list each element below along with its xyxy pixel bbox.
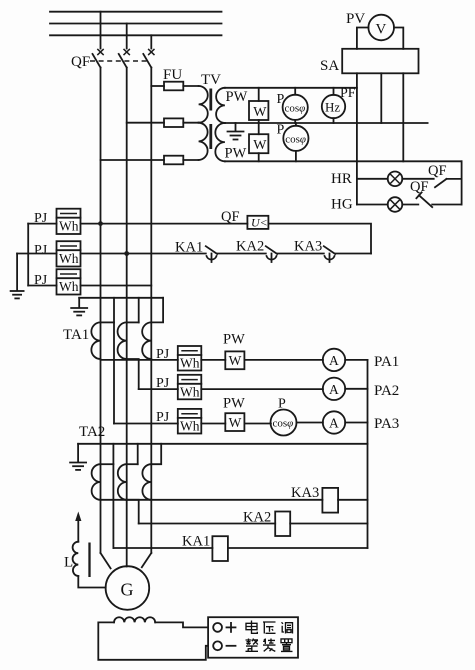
contact KA3 bbox=[324, 246, 335, 262]
wire row3 cosphi to A bbox=[297, 422, 323, 424]
svg-text:Wh: Wh bbox=[180, 384, 200, 399]
svg-text:QF: QF bbox=[221, 209, 240, 225]
voltmeter PV bbox=[368, 15, 394, 41]
wire phase C drop from bus L3 bbox=[150, 35, 152, 48]
wire row2 Wh to A bbox=[201, 388, 323, 390]
svg-text:A: A bbox=[329, 382, 339, 397]
svg-text:Wh: Wh bbox=[180, 356, 200, 371]
svg-text:U<: U< bbox=[251, 215, 268, 229]
wire meter right rail bbox=[367, 360, 369, 548]
svg-text:A: A bbox=[329, 353, 339, 368]
voltage regulator box bbox=[208, 617, 298, 658]
svg-text:W: W bbox=[229, 415, 242, 430]
svg-text:TA2: TA2 bbox=[79, 424, 105, 440]
wire phase A drop from bus L1 bbox=[100, 12, 102, 49]
wire FU3 to TV bbox=[183, 159, 198, 161]
current transformer TA2 phase B bbox=[118, 464, 127, 500]
breaker QF pole B bbox=[119, 49, 130, 68]
svg-text:A: A bbox=[329, 416, 339, 431]
svg-text:Wh: Wh bbox=[59, 251, 79, 266]
wire TA1 lead B top bbox=[138, 298, 140, 323]
wire row1 right bbox=[345, 359, 367, 361]
svg-text:HR: HR bbox=[331, 171, 352, 187]
svg-text:PJ: PJ bbox=[156, 347, 170, 362]
wire TA2 jog B bbox=[127, 463, 138, 465]
svg-text:W: W bbox=[253, 138, 267, 153]
svg-text:QF: QF bbox=[71, 54, 90, 70]
terminal plus bbox=[213, 623, 222, 632]
svg-text:PW: PW bbox=[226, 89, 248, 105]
bus L3 bbox=[50, 34, 222, 36]
power-factor meter cosphi row3 bbox=[271, 410, 297, 436]
wire row3 right bbox=[345, 422, 367, 424]
current transformer TA1 phase B bbox=[118, 322, 127, 359]
wire HR branch left bbox=[357, 178, 388, 180]
svg-text:KA2: KA2 bbox=[236, 239, 264, 255]
wire KA line seg3 bbox=[277, 253, 324, 255]
svg-text:HG: HG bbox=[331, 197, 353, 213]
ground TA2 bbox=[70, 444, 86, 470]
wire phase A slant to G bbox=[101, 553, 111, 568]
wire TV secondary mid bbox=[225, 122, 428, 124]
wire HR branch right bbox=[447, 178, 462, 180]
wire KA2 row bbox=[139, 523, 276, 525]
wire TA2 jog A bbox=[101, 463, 114, 465]
wire PJ3 to phase C bbox=[81, 285, 152, 287]
wire TA1 lead B bottom bbox=[127, 359, 139, 389]
svg-text:Wh: Wh bbox=[59, 219, 79, 234]
wire row1 left bbox=[101, 359, 178, 361]
wire lamp right rail bbox=[461, 161, 463, 204]
text zheng zhuang zhi bbox=[246, 639, 293, 652]
wire TA1 lead C top bbox=[151, 298, 163, 323]
svg-text:cosφ: cosφ bbox=[273, 418, 294, 430]
breaker QF pole C bbox=[143, 49, 154, 68]
contact KA2 bbox=[266, 246, 277, 262]
transformer TV secondary winding PW lower bbox=[215, 123, 225, 161]
wire row3 vertical from lead A bbox=[114, 423, 178, 425]
bus L1 bbox=[50, 11, 222, 13]
wattmeter W row3 bbox=[225, 413, 244, 431]
wire phase B main bbox=[126, 68, 128, 567]
transformer TV core upper bbox=[209, 89, 212, 111]
wattmeter W1 bbox=[249, 88, 268, 123]
fuse FU2 bbox=[164, 118, 183, 127]
wire HG branch left bbox=[357, 204, 388, 206]
wire KA1 to rail bbox=[228, 547, 368, 549]
wire L to generator bbox=[78, 576, 105, 588]
wire TA1 secondary common bbox=[79, 297, 163, 299]
transformer TV secondary winding PW upper bbox=[216, 88, 225, 123]
wattmeter W2 bbox=[249, 123, 268, 161]
current transformer TA1 phase C bbox=[142, 322, 151, 359]
wattmeter W row1 bbox=[225, 351, 244, 369]
wire HG branch right bbox=[432, 204, 461, 206]
selector switch SA bbox=[342, 49, 418, 74]
power-factor meter P cosphi lower bbox=[277, 123, 309, 162]
text dian ya tiao bbox=[246, 621, 293, 634]
svg-text:PJ: PJ bbox=[156, 410, 170, 425]
svg-text:Hz: Hz bbox=[325, 100, 340, 115]
wire TV secondary top bbox=[225, 87, 357, 89]
relay coil KA3 bbox=[322, 488, 338, 513]
wire KA1 row bbox=[113, 547, 212, 549]
wire KA line seg4 bbox=[335, 253, 371, 255]
wire row2 elbow bbox=[139, 388, 178, 390]
svg-text:PJ: PJ bbox=[34, 243, 48, 258]
svg-text:KA1: KA1 bbox=[182, 534, 210, 550]
svg-text:cosφ: cosφ bbox=[285, 103, 306, 115]
svg-text:PW: PW bbox=[223, 332, 245, 348]
wire TV secondary bottom bbox=[225, 160, 462, 162]
transformer TV core lower bbox=[209, 124, 212, 149]
wire PJ1 left bbox=[28, 223, 56, 225]
relay coil KA1 bbox=[212, 536, 228, 561]
wire TA2 secondary common bbox=[78, 443, 367, 445]
svg-text:G: G bbox=[121, 580, 134, 600]
wire SA left drop bbox=[356, 73, 358, 204]
ammeter PA2 bbox=[323, 378, 345, 400]
undervoltage release U-box bbox=[247, 215, 268, 229]
svg-text:TA1: TA1 bbox=[63, 327, 89, 343]
svg-text:PA3: PA3 bbox=[374, 416, 399, 432]
svg-text:Wh: Wh bbox=[180, 418, 200, 433]
wire SA right drop bbox=[402, 73, 404, 161]
ammeter PA3 bbox=[323, 411, 345, 433]
wire KA3 row bbox=[101, 499, 323, 501]
wire phase B to FU2 bbox=[127, 122, 164, 124]
wire PJ3 left bbox=[28, 285, 56, 287]
wire field left loop bbox=[98, 622, 208, 659]
svg-text:KA2: KA2 bbox=[243, 510, 271, 526]
svg-text:KA1: KA1 bbox=[175, 240, 203, 256]
fuse FU1 bbox=[164, 82, 183, 91]
wire PV left to SA bbox=[357, 28, 369, 49]
wire KA line seg2 bbox=[217, 253, 266, 255]
wire TA2 lead C top bbox=[151, 444, 161, 464]
wire PJ2 ground vertical bbox=[16, 254, 18, 291]
wire TA1 lead A bbox=[113, 298, 115, 424]
contact QF NC for HG bbox=[416, 192, 432, 207]
energy meter PJ3 Wh bbox=[57, 269, 81, 294]
breaker QF pole A bbox=[93, 49, 104, 68]
svg-text:V: V bbox=[376, 22, 387, 38]
wire HR branch mid bbox=[402, 178, 433, 180]
transformer TV primary winding upper bbox=[199, 86, 208, 123]
inductor L bbox=[73, 542, 79, 576]
energy meter Wh row2 bbox=[178, 375, 202, 400]
ground PJ meters bbox=[11, 291, 24, 298]
svg-text:W: W bbox=[253, 105, 267, 120]
wire HG branch mid bbox=[402, 204, 418, 206]
svg-text:QF: QF bbox=[428, 163, 447, 179]
wire Wh1 to U-box bbox=[81, 223, 248, 225]
wire phase C to FU1 bbox=[151, 85, 164, 87]
lamp HR bbox=[388, 172, 403, 187]
wire phase A to FU3 bbox=[101, 159, 165, 161]
bus L2 bbox=[50, 23, 222, 25]
current transformer TA2 phase C bbox=[142, 464, 151, 500]
wire KA line seg1 bbox=[81, 253, 206, 255]
breaker linkage dashed bbox=[90, 60, 150, 62]
wire FU2 to TV bbox=[183, 122, 198, 124]
node phase B tap bbox=[124, 251, 129, 256]
wire row1 Wh to W bbox=[201, 359, 225, 361]
svg-text:L: L bbox=[64, 555, 73, 571]
wire PV right to SA bbox=[394, 28, 403, 49]
wire phase B drop from bus L2 bbox=[126, 24, 128, 49]
energy meter PJ2 Wh bbox=[57, 241, 81, 266]
arrow excitation bbox=[75, 512, 81, 542]
transformer TV primary winding lower bbox=[199, 123, 208, 160]
energy meter Wh row1 bbox=[178, 346, 202, 371]
wire TA2 lead A bbox=[112, 444, 114, 548]
power-factor meter P cosphi upper bbox=[277, 88, 308, 123]
ground TA1 bbox=[71, 298, 87, 316]
wire PJ1-PJ3 link vertical bbox=[27, 224, 29, 286]
ammeter PA1 bbox=[323, 349, 345, 371]
svg-text:PW: PW bbox=[225, 146, 247, 162]
inductor L core bar bbox=[88, 543, 90, 578]
svg-text:TV: TV bbox=[201, 72, 221, 88]
wire phase A main bbox=[100, 68, 102, 554]
current transformer TA2 phase A bbox=[92, 464, 101, 500]
wire field right to regulator bbox=[155, 622, 208, 627]
svg-text:FU: FU bbox=[163, 67, 182, 83]
frequency meter PF Hz bbox=[322, 86, 356, 123]
wire row1 W to A bbox=[244, 359, 323, 361]
wire SA mid drop bbox=[380, 73, 382, 123]
field winding bbox=[114, 617, 155, 622]
fuse FU3 bbox=[164, 156, 183, 165]
svg-text:SA: SA bbox=[320, 58, 339, 74]
wire U-box to right bbox=[268, 224, 371, 254]
wire TA2 lead B top bbox=[137, 444, 139, 464]
wire row3 Wh to W bbox=[201, 423, 225, 425]
svg-text:KA3: KA3 bbox=[294, 239, 322, 255]
ground TV mid bbox=[228, 123, 244, 140]
energy meter PJ1 Wh bbox=[57, 209, 81, 234]
svg-text:QF: QF bbox=[410, 179, 429, 195]
wire PJ2 left bbox=[17, 253, 56, 255]
svg-text:PA1: PA1 bbox=[374, 354, 399, 370]
svg-text:KA3: KA3 bbox=[291, 485, 319, 501]
generator G bbox=[106, 566, 150, 610]
svg-text:PV: PV bbox=[346, 11, 365, 27]
wire TA1 jog B bbox=[127, 321, 139, 323]
wire FU1 to TV bbox=[183, 85, 198, 87]
minus sign bbox=[227, 645, 236, 647]
lamp HG bbox=[388, 197, 403, 212]
wire phase C slant to G bbox=[142, 553, 152, 567]
plus sign bbox=[227, 623, 236, 632]
wire row2 right bbox=[345, 388, 367, 390]
svg-text:Wh: Wh bbox=[59, 279, 79, 294]
wire KA3 to rail bbox=[338, 499, 367, 501]
energy meter Wh row3 bbox=[178, 409, 202, 434]
contact QF NO for HR bbox=[435, 179, 447, 187]
wire row3 W to cosphi bbox=[244, 423, 271, 425]
current transformer TA1 phase A bbox=[91, 322, 100, 359]
node phase A tap bbox=[98, 221, 103, 226]
wire TA1 jog A bbox=[101, 321, 115, 323]
svg-text:PJ: PJ bbox=[156, 376, 170, 391]
contact KA1 bbox=[206, 246, 217, 262]
wire phase C main bbox=[150, 68, 152, 554]
svg-text:PA2: PA2 bbox=[374, 383, 399, 399]
relay coil KA2 bbox=[275, 512, 290, 537]
wire KA2 to rail bbox=[290, 523, 367, 525]
terminal minus bbox=[213, 641, 222, 650]
wire TA2 lead B bottom bbox=[127, 500, 139, 524]
svg-text:cosφ: cosφ bbox=[285, 134, 306, 146]
svg-text:PW: PW bbox=[223, 396, 245, 412]
svg-text:W: W bbox=[229, 353, 242, 368]
